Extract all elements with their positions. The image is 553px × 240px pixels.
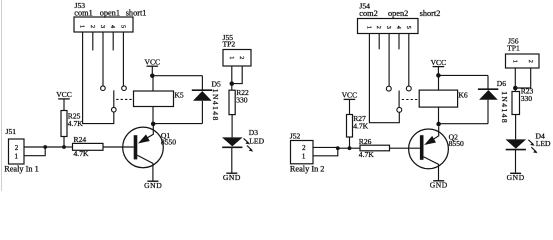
wire bottom rail	[153, 123, 202, 125]
wire J51 pin2	[24, 146, 45, 148]
wire to R22	[231, 84, 233, 91]
svg-text:3: 3	[99, 25, 106, 28]
wire J54 pin1 (com2) to relay common	[369, 34, 399, 123]
svg-text:R26: R26	[359, 137, 372, 146]
wire VCC top rail	[152, 75, 202, 77]
wire K6 coil to bottom rail	[438, 107, 440, 124]
wire base to R26	[390, 147, 420, 149]
svg-text:4.7K: 4.7K	[359, 150, 374, 159]
wire R27 to VCC	[349, 100, 351, 115]
svg-text:4.7K: 4.7K	[74, 149, 89, 158]
svg-text:D6: D6	[497, 79, 506, 88]
svg-text:4: 4	[395, 26, 402, 29]
relay K5 contact short1	[122, 86, 127, 91]
relay K5 armature	[113, 90, 115, 107]
wire to R23	[514, 88, 516, 92]
wire J53 pin1 (com1) to relay common	[83, 32, 114, 124]
wire R25 to VCC	[63, 99, 65, 111]
wire J51 pin1	[24, 147, 45, 156]
connector J55	[223, 50, 251, 67]
relay K6 common pivot	[397, 107, 402, 112]
svg-text:2: 2	[89, 25, 96, 28]
junction J55 tie node	[230, 81, 235, 86]
wire J54 pin4 stub	[398, 34, 400, 50]
svg-text:LED: LED	[249, 136, 264, 145]
resistor R27	[347, 115, 353, 138]
wire top rail to D6 cathode	[487, 75, 489, 89]
relay K6 contact short2	[406, 86, 411, 91]
svg-text:K5: K5	[174, 90, 183, 99]
svg-text:2: 2	[527, 60, 534, 63]
svg-text:1N4148: 1N4148	[211, 89, 220, 122]
wire J54 pin5 (short2) to contact	[408, 34, 410, 87]
resistor R25	[61, 111, 67, 137]
svg-text:1: 1	[228, 56, 235, 59]
junction coil/diode/emitter node (right)	[436, 122, 441, 127]
wire junction to junction	[45, 146, 64, 148]
junction R25 node	[62, 145, 66, 149]
wire bottom rail (right)	[439, 123, 488, 125]
svg-text:1N4148: 1N4148	[500, 91, 509, 124]
svg-text:K6: K6	[458, 90, 467, 99]
svg-text:GND: GND	[223, 173, 241, 182]
svg-text:5: 5	[405, 26, 412, 29]
wire R26 to junction	[350, 147, 361, 149]
svg-text:GND: GND	[430, 180, 448, 189]
power VCC (relay K5)	[144, 58, 160, 76]
svg-text:8550: 8550	[449, 139, 464, 148]
label com2 open2 short2	[359, 9, 440, 18]
svg-text:J52: J52	[290, 131, 301, 140]
svg-text:com2: com2	[359, 9, 377, 18]
wire D4 cathode to GND	[515, 150, 517, 173]
svg-text:GND: GND	[507, 173, 525, 182]
connector J51	[9, 139, 25, 164]
wire R27 to input node	[349, 137, 351, 148]
svg-text:VCC: VCC	[144, 58, 160, 67]
svg-text:Realy In 1: Realy In 1	[4, 165, 39, 174]
wire J56 pin1 down	[514, 68, 516, 88]
svg-text:LED: LED	[536, 139, 551, 148]
power VCC (R27)	[342, 91, 358, 100]
svg-text:2: 2	[375, 26, 382, 29]
svg-text:330: 330	[521, 94, 533, 103]
svg-text:GND: GND	[144, 181, 162, 190]
junction coil/diode/emitter node	[151, 122, 156, 127]
wire J55 pin2 down	[232, 66, 242, 84]
junction VCC rail node	[150, 73, 155, 78]
wire J55 pin1 down	[231, 66, 233, 84]
svg-text:TP2: TP2	[223, 40, 236, 49]
ground GND (D4)	[507, 173, 525, 182]
wire base to R24	[103, 146, 134, 148]
svg-text:short2: short2	[420, 9, 441, 18]
svg-text:1: 1	[14, 152, 18, 160]
connector J56	[506, 54, 540, 68]
svg-text:2: 2	[238, 56, 245, 59]
transistor Q2	[409, 126, 449, 180]
wire K6 coil to VCC rail	[438, 75, 440, 90]
wire J52 pin2	[313, 146, 338, 148]
connector J53	[74, 17, 133, 32]
scan artifact faint left border line	[1, 0, 3, 191]
wire J53 pin3 (open1) to contact	[102, 32, 104, 86]
svg-text:330: 330	[236, 95, 248, 104]
transistor Q1	[123, 126, 164, 181]
svg-text:VCC: VCC	[342, 91, 358, 100]
ground GND (D3)	[223, 173, 241, 182]
resistor R22	[229, 90, 235, 114]
svg-text:4.7K: 4.7K	[353, 121, 368, 130]
LED D3	[222, 137, 253, 151]
resistor R23	[512, 92, 520, 115]
LED D4	[506, 139, 538, 153]
relay K5 actuation dashed link	[116, 98, 133, 100]
relay K5 contact open1	[101, 86, 106, 91]
wire junction to junction (right)	[338, 147, 350, 149]
svg-text:5: 5	[119, 25, 126, 28]
wire D6 anode to bottom rail	[487, 100, 489, 124]
wire R23 to D4	[515, 115, 517, 140]
svg-text:VCC: VCC	[56, 90, 72, 99]
junction VCC rail node (K6)	[436, 73, 441, 78]
wire R25 to input node	[63, 137, 65, 148]
svg-text:3: 3	[385, 26, 392, 29]
wire J53 pin5 (short1) to contact	[122, 32, 124, 86]
svg-text:J51: J51	[6, 127, 17, 136]
svg-text:4.7K: 4.7K	[68, 119, 83, 128]
svg-text:short1: short1	[126, 9, 147, 18]
junction J52 tie node	[336, 146, 340, 150]
svg-text:com1: com1	[74, 9, 92, 18]
svg-text:8550: 8550	[161, 138, 176, 147]
svg-text:open2: open2	[388, 9, 408, 18]
junction J51 tie node	[43, 145, 47, 149]
diode D5	[192, 90, 212, 101]
ground GND (Q1)	[144, 181, 162, 190]
wire K5 coil to bottom rail	[152, 107, 154, 124]
diode D6	[478, 89, 498, 100]
wire top rail to D5 cathode	[201, 76, 203, 91]
wire J56 pin2 down	[515, 68, 530, 88]
svg-text:R24: R24	[74, 135, 87, 144]
wire D5 anode to bottom rail	[201, 101, 203, 124]
wire VCC top rail (right)	[438, 74, 488, 76]
relay K6 coil	[419, 90, 457, 107]
junction J56 tie node	[513, 86, 518, 91]
relay K6 armature	[398, 91, 400, 108]
junction R27 node	[348, 146, 352, 150]
wire J54 pin2 stub	[378, 34, 380, 50]
svg-text:1: 1	[511, 60, 518, 63]
svg-text:D5: D5	[212, 79, 221, 88]
label com1 open1 short1	[74, 9, 146, 18]
wire J54 pin3 (open2) to contact	[388, 34, 390, 87]
power VCC (relay K6)	[431, 58, 447, 76]
svg-text:2: 2	[15, 144, 19, 152]
wire J53 pin4 stub	[112, 32, 114, 50]
ground GND (Q2)	[430, 180, 448, 189]
relay K6 actuation dashed link	[402, 99, 419, 101]
relay K5 common pivot	[112, 107, 117, 112]
connector J54	[358, 19, 419, 34]
relay K5 coil	[134, 91, 174, 107]
connector J52	[291, 141, 314, 164]
svg-text:1: 1	[365, 26, 372, 29]
resistor R24	[73, 143, 104, 150]
svg-text:4: 4	[109, 25, 116, 28]
wire K5 coil to VCC rail	[152, 76, 154, 91]
resistor R26	[360, 145, 390, 151]
wire R24 to junction	[64, 146, 73, 148]
svg-text:1: 1	[302, 153, 306, 161]
relay K6 contact open2	[386, 86, 391, 91]
svg-text:VCC: VCC	[431, 58, 447, 67]
svg-text:2: 2	[302, 144, 306, 152]
svg-text:Realy In 2: Realy In 2	[290, 164, 325, 173]
wire J53 pin2 stub	[92, 32, 94, 50]
wire R22 to D3	[231, 115, 233, 138]
svg-text:1: 1	[79, 25, 86, 28]
svg-text:open1: open1	[100, 9, 120, 18]
wire J52 pin1	[313, 147, 338, 155]
wire D3 cathode to GND	[231, 147, 233, 172]
svg-text:TP1: TP1	[507, 44, 520, 53]
power VCC (R25)	[56, 90, 72, 99]
